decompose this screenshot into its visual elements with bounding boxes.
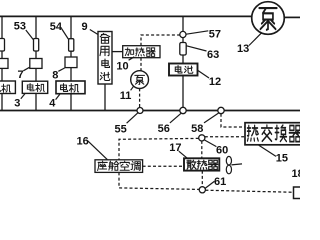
- svg-text:58: 58: [191, 123, 203, 135]
- svg-text:53: 53: [14, 20, 26, 32]
- svg-text:16: 16: [77, 136, 89, 148]
- svg-text:18: 18: [292, 168, 301, 180]
- svg-text:54: 54: [50, 21, 63, 33]
- svg-text:9: 9: [82, 21, 88, 33]
- svg-text:63: 63: [207, 49, 219, 61]
- svg-text:13: 13: [237, 43, 249, 55]
- svg-text:12: 12: [209, 76, 221, 88]
- svg-text:8: 8: [52, 69, 58, 81]
- svg-text:3: 3: [14, 97, 20, 109]
- svg-text:7: 7: [18, 69, 24, 81]
- svg-text:15: 15: [276, 152, 288, 164]
- svg-text:4: 4: [49, 97, 56, 109]
- svg-text:57: 57: [209, 28, 221, 40]
- svg-text:56: 56: [158, 123, 170, 135]
- svg-text:55: 55: [115, 124, 127, 136]
- svg-text:17: 17: [169, 142, 181, 154]
- svg-text:61: 61: [214, 176, 226, 188]
- svg-text:60: 60: [216, 145, 228, 157]
- svg-text:11: 11: [120, 90, 132, 102]
- svg-text:10: 10: [116, 60, 128, 72]
